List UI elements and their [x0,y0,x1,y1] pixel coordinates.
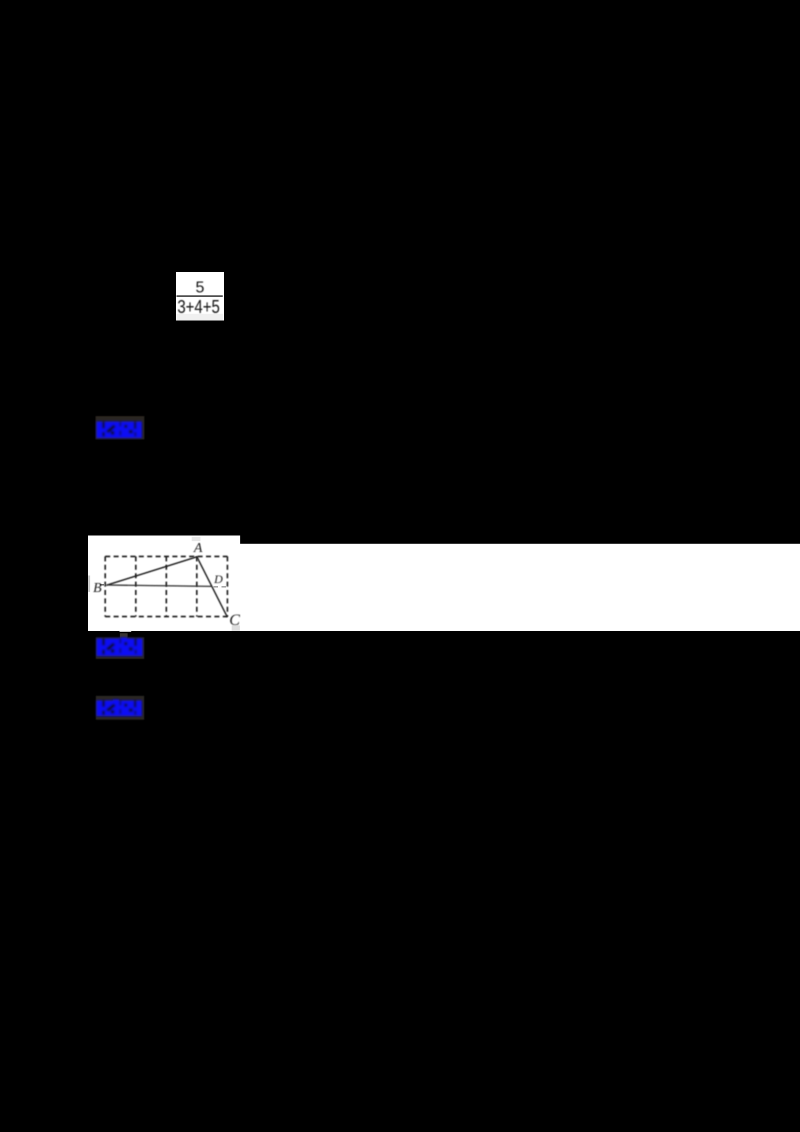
grid top edge [105,555,227,557]
blue tag 3 text blob [96,699,141,716]
gray smudge below C [232,625,240,630]
blue tag 1 backing [96,416,145,439]
grid bottom edge [105,616,227,618]
svg-text:D: D [213,572,223,586]
blue tag 2 backing [96,637,144,659]
blue tag 1 text blob [96,422,141,439]
grid vertical line 1 (left edge) [104,556,106,616]
gray smudge above A [192,537,201,541]
gray tab below band [120,633,128,640]
triangle side AC [197,557,227,617]
svg-text:A: A [193,541,203,556]
grid mid horizontal dashed segment right of D [214,586,228,588]
grid vertical line 2 [135,556,137,616]
svg-text:3+4+5: 3+4+5 [177,297,220,317]
fraction box background [176,272,224,321]
svg-text:C: C [229,612,240,629]
blue tag 3 backing [96,696,144,720]
grid vertical line 5 (right edge) [226,556,228,616]
blue tag 2 text blob [97,638,143,657]
cevian BD [106,585,212,586]
grid vertical line 3 [165,556,167,616]
grid mid horizontal dash fragment left of B [100,584,104,586]
triangle side BA [106,557,197,586]
fraction bar [177,295,223,296]
white band upper-left part (figure top) [88,536,240,632]
svg-text:5: 5 [196,279,205,296]
white band full-width part [240,544,800,631]
white bit below band [120,631,132,632]
fraction bottom light strip [177,314,224,321]
grid vertical line 4 [196,556,198,616]
gray tick left of B [88,576,90,592]
dashed grid [105,556,227,616]
svg-text:B: B [93,581,102,596]
